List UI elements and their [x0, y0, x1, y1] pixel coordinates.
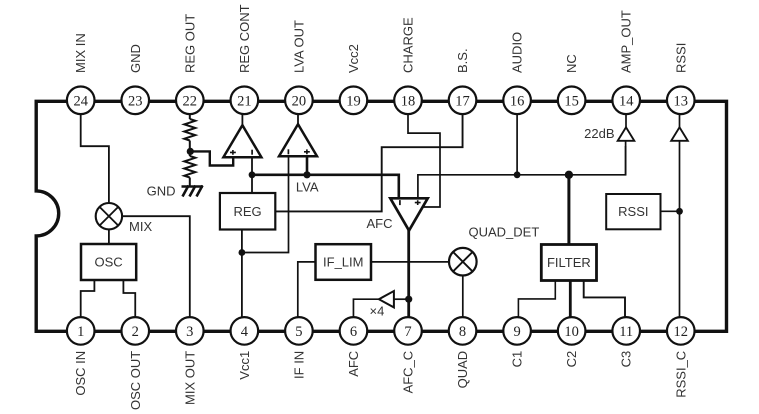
svg-text:Vcc1: Vcc1 [237, 351, 252, 380]
wire pin13 (RSSI) to buffer amp [679, 112, 681, 128]
quadrature detector (circle with X) [449, 248, 477, 276]
svg-text:4: 4 [241, 324, 249, 340]
pin 4 (Vcc1) [231, 317, 259, 380]
svg-text:IF IN: IF IN [291, 351, 306, 379]
pin 6 (AFC) [340, 317, 368, 377]
svg-text:AUDIO: AUDIO [510, 32, 525, 73]
buffer amp below pin 13 (points up) [671, 127, 688, 141]
mixer MIX (circle with X) [96, 203, 122, 229]
pin 1 (OSC IN) [67, 317, 95, 395]
svg-text:1: 1 [77, 324, 84, 340]
svg-text:FILTER: FILTER [547, 255, 591, 270]
wire AFC output to pin7 (AFC_C) [407, 229, 410, 318]
svg-text:15: 15 [564, 93, 579, 109]
wire R1 to junction [189, 141, 191, 152]
svg-text:GND: GND [147, 184, 176, 199]
wire mixer to pin3 (MIX OUT) [122, 216, 190, 318]
wire R2 to ground [189, 178, 191, 186]
amplifier x4 (points left) [379, 291, 394, 307]
resistor R2 (junction to ground) [184, 156, 195, 178]
junction REG output / Vcc1 [239, 249, 246, 256]
svg-text:QUAD_DET: QUAD_DET [469, 225, 540, 240]
block IF_LIM (IF limiter) [316, 244, 372, 280]
wire x4 amp to AFC output node [394, 298, 409, 300]
junction audio net / pin16 [514, 171, 521, 178]
svg-text:OSC: OSC [95, 255, 123, 270]
svg-text:GND: GND [128, 44, 143, 73]
wire OSC to pin1 (OSC IN) [81, 280, 95, 318]
wire FILTER to pin9 (C1) [518, 281, 555, 319]
wire OSC to pin2 (OSC OUT) [123, 280, 135, 318]
pin 22 (REG OUT) [176, 14, 204, 114]
pin 21 (REG CONT) [231, 4, 259, 114]
pin 18 (CHARGE) [394, 17, 422, 114]
block OSC (oscillator) [81, 244, 136, 280]
svg-text:21: 21 [237, 93, 252, 109]
block RSSI [606, 194, 660, 229]
svg-text:C2: C2 [564, 351, 579, 368]
svg-text:MIX: MIX [129, 219, 152, 234]
pin 16 (AUDIO) [503, 32, 531, 114]
wire LVA + input to net [306, 157, 309, 175]
wire node to REG box [251, 175, 253, 193]
svg-text:5: 5 [295, 324, 302, 340]
svg-text:14: 14 [619, 93, 634, 109]
wire FILTER to pin10 (C2) [569, 281, 572, 319]
wire pin6 (AFC) to x4 amp [353, 299, 378, 318]
IC body outline with left-edge notch [36, 101, 726, 331]
wire pin22 to resistor R1 [189, 112, 191, 119]
pin 3 (MIX OUT) [176, 317, 204, 405]
svg-text:AMP_OUT: AMP_OUT [619, 10, 634, 73]
svg-text:22: 22 [183, 93, 198, 109]
wire quadrature detector to pin8 (QUAD) [462, 275, 464, 318]
pin 7 (AFC_C) [394, 317, 422, 393]
svg-text:18: 18 [401, 93, 416, 109]
pin 5 (IF IN) [285, 317, 313, 379]
op-amp AFC (points down), - left / + right [390, 198, 427, 230]
op-amp comparator below pin 21 (REG CONT), + left / - right [223, 125, 261, 157]
svg-text:AFC: AFC [367, 216, 393, 231]
svg-text:6: 6 [350, 324, 357, 340]
wire pin16 (AUDIO) to net [516, 112, 518, 175]
op-amp LVA below pin 20 (LVA OUT), - left / + right [279, 124, 317, 156]
svg-text:MIX IN: MIX IN [73, 33, 88, 73]
junction audio net / FILTER [565, 171, 573, 179]
svg-text:11: 11 [619, 324, 633, 340]
wire RSSI box to node [661, 210, 680, 212]
wire audio net to FILTER [567, 175, 570, 245]
resistor R1 (pin 22 to junction) [184, 119, 195, 141]
junction comparator - / REG / LVA net [249, 171, 256, 178]
svg-text:8: 8 [459, 324, 466, 340]
svg-text:REG: REG [234, 204, 262, 219]
svg-text:19: 19 [346, 93, 361, 109]
pin 11 (C3) [612, 317, 640, 367]
pin 20 (LVA OUT) [285, 20, 313, 114]
svg-text:RSSI: RSSI [618, 204, 648, 219]
pin 8 (QUAD) [449, 317, 477, 388]
svg-text:12: 12 [674, 324, 689, 340]
wire LVA - input feedback [242, 157, 289, 252]
wire REG to Vcc1 node [241, 230, 243, 253]
pin 13 (RSSI) [667, 43, 695, 114]
wire Vcc1 node to pin4 [241, 253, 243, 319]
svg-text:16: 16 [510, 93, 525, 109]
svg-text:3: 3 [186, 324, 193, 340]
svg-text:MIX OUT: MIX OUT [182, 351, 197, 405]
wire 22dB amp input down to audio net [625, 140, 627, 175]
svg-text:IF_LIM: IF_LIM [323, 255, 363, 270]
pin 24 (MIX IN) [67, 33, 95, 114]
wire comparator - input to node [251, 157, 253, 175]
net audio line AFC + input to 22dB amp [418, 146, 626, 199]
svg-text:RSSI: RSSI [673, 43, 688, 73]
svg-text:LVA: LVA [296, 179, 319, 194]
wire FILTER to pin11 (C3) [584, 281, 625, 319]
svg-text:17: 17 [455, 93, 470, 109]
svg-text:13: 13 [674, 93, 689, 109]
pin 2 (OSC OUT) [121, 317, 149, 410]
wire REG output to pin17 (B.S.) [275, 112, 462, 211]
svg-text:REG OUT: REG OUT [182, 14, 197, 73]
wire IF_LIM to pin5 (IF IN) [298, 262, 316, 318]
pin 23 (GND) [121, 44, 149, 114]
wire pin24 to mixer [81, 112, 109, 203]
svg-text:REG CONT: REG CONT [237, 4, 252, 73]
svg-text:7: 7 [404, 324, 411, 340]
svg-text:C3: C3 [619, 351, 634, 368]
wire junction to resistor R2 [189, 151, 191, 156]
svg-text:C1: C1 [510, 351, 525, 368]
svg-text:10: 10 [564, 324, 579, 340]
amplifier 22dB below pin 14 (points up) [618, 127, 635, 141]
block REG (regulator) [220, 193, 275, 230]
svg-text:NC: NC [564, 54, 579, 73]
pin 9 (C1) [503, 317, 531, 367]
svg-text:CHARGE: CHARGE [401, 17, 416, 73]
svg-text:OSC IN: OSC IN [73, 351, 88, 396]
svg-text:20: 20 [292, 93, 307, 109]
svg-text:AFC_C: AFC_C [401, 351, 416, 394]
wire IF_LIM to quadrature detector [371, 261, 449, 263]
wire buffer amp to pin12 (RSSI_C) [679, 140, 681, 318]
svg-text:LVA OUT: LVA OUT [291, 20, 306, 73]
pin 12 (RSSI_C) [667, 317, 695, 398]
svg-text:B.S.: B.S. [455, 48, 470, 73]
pin 15 (NC) [558, 54, 586, 114]
pin 10 (C2) [558, 317, 586, 367]
wire mixer to OSC [108, 229, 110, 244]
svg-text:×4: ×4 [370, 304, 385, 319]
svg-text:22dB: 22dB [584, 126, 614, 141]
net LVA line to AFC - input [252, 175, 399, 199]
wire pin14 (AMP_OUT) to 22dB amp [625, 112, 627, 128]
svg-text:24: 24 [73, 93, 88, 109]
pin 17 (B.S.) [449, 48, 477, 114]
pin 19 (Vcc2) [340, 44, 368, 114]
svg-text:2: 2 [132, 324, 139, 340]
junction AFC output / x4 [405, 296, 412, 303]
svg-text:9: 9 [513, 324, 520, 340]
wire pin20 (LVA OUT) to LVA apex [297, 112, 299, 126]
svg-text:OSC OUT: OSC OUT [128, 351, 143, 410]
svg-text:RSSI_C: RSSI_C [673, 351, 688, 398]
pin 14 (AMP_OUT) [612, 10, 640, 114]
svg-text:QUAD: QUAD [455, 351, 470, 389]
svg-text:23: 23 [128, 93, 143, 109]
svg-text:AFC: AFC [346, 351, 361, 377]
junction LVA + / audio-LVA net [303, 171, 310, 178]
junction pin22 resistor divider [187, 148, 194, 155]
junction RSSI / pin13-12 line [676, 208, 683, 215]
block FILTER [541, 245, 596, 281]
wire pin18 (CHARGE) to AFC output side [408, 112, 440, 207]
wire pin21 (REG CONT) to comparator apex [241, 112, 243, 127]
ground symbol [182, 186, 204, 197]
svg-text:Vcc2: Vcc2 [346, 44, 361, 73]
wire junction to comparator + input [190, 151, 233, 165]
